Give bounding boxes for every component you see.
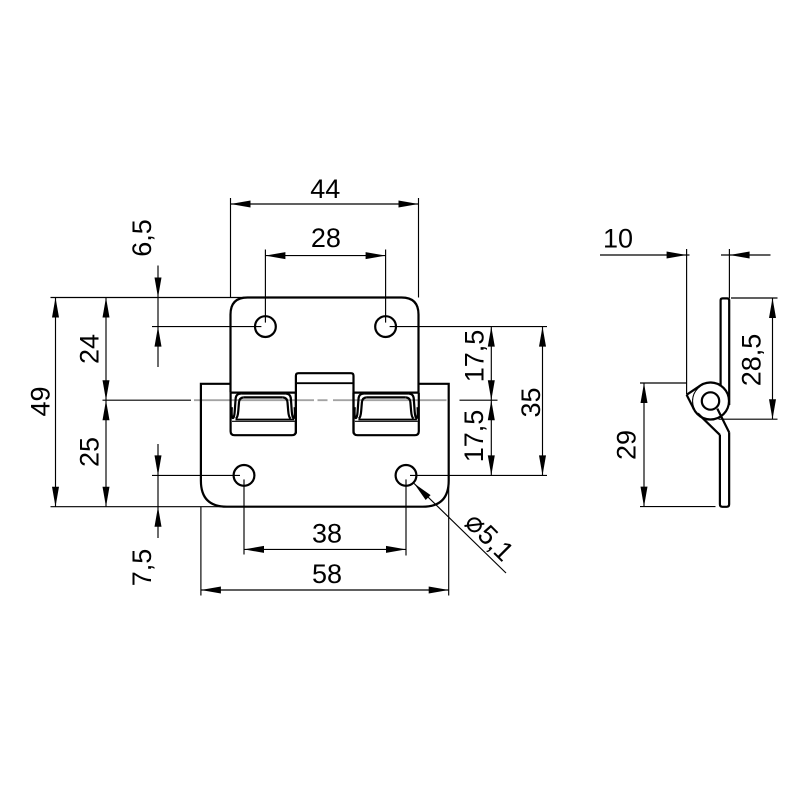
svg-text:28,5: 28,5: [737, 334, 767, 387]
dimension 6,5: [157, 266, 159, 368]
knuckle band line 2: [355, 420, 418, 422]
centerline (pivot axis, gray dash-dot): [194, 399, 447, 401]
hat outer left curl: [355, 394, 365, 419]
extension line 44 right: [418, 198, 420, 298]
dimension 17,5 upper: [490, 327, 492, 401]
side view lower leaf diagonal left: [698, 413, 720, 435]
side view beak (leaf end wedge): [687, 386, 701, 410]
dimension 49: [55, 298, 57, 507]
knuckle block: [231, 393, 296, 436]
dimension 28: [265, 255, 385, 257]
side view knuckle outer circle: [692, 383, 729, 420]
hole upper right: [375, 316, 396, 337]
lower leaf plate (front view): [201, 384, 449, 507]
svg-text:25: 25: [75, 437, 105, 467]
side view beak upper edge: [687, 386, 701, 395]
right knuckle: [354, 393, 419, 436]
extension line 28,5 bottom: [719, 418, 778, 420]
extension line lower hole row left: [152, 474, 240, 476]
knuckle band line 1: [236, 419, 295, 421]
center knuckle tab: [296, 373, 354, 433]
dimension 28,5 (side view): [772, 298, 774, 419]
extension line 29 top: [640, 382, 687, 384]
upper leaf bottom edge left segment: [231, 392, 296, 394]
hat inner left: [236, 397, 244, 418]
hat outer top: [364, 392, 408, 394]
knuckle band line 1: [358, 419, 417, 421]
extension line 44 left: [230, 198, 232, 298]
dimension 25: [105, 400, 107, 507]
side view upper leaf strip: [721, 298, 730, 405]
svg-text:58: 58: [312, 559, 342, 589]
hat inner right: [406, 397, 414, 418]
extension line 28,5 top: [731, 297, 778, 299]
extension line 10 right: [728, 249, 730, 298]
hat outer right curl: [408, 394, 418, 419]
svg-text:44: 44: [310, 174, 340, 204]
extension line 28 right: [385, 250, 387, 323]
extension line plate bottom: [51, 506, 261, 508]
hole upper left: [255, 316, 276, 337]
svg-text:17,5: 17,5: [459, 410, 489, 463]
hat outer right curl: [285, 394, 295, 419]
side view beak lower edge: [687, 395, 694, 410]
upper leaf bottom edge right segment: [354, 392, 419, 394]
dimension 58: [201, 589, 449, 591]
extension line 58 right: [448, 481, 450, 596]
extension line lower hole row right: [410, 474, 547, 476]
hole lower right: [396, 465, 417, 486]
tab crossline: [296, 382, 354, 384]
hat outer top: [241, 392, 285, 394]
hat inner right: [283, 397, 291, 418]
svg-text:24: 24: [75, 334, 105, 364]
svg-text:38: 38: [312, 518, 342, 548]
extension line upper hole row left: [152, 326, 261, 328]
dimension 35: [542, 327, 544, 476]
extension line 28 left: [264, 250, 266, 323]
extension line centerline level left: [103, 399, 192, 401]
extension line 29 bottom: [640, 506, 716, 508]
hat inner left: [359, 397, 367, 418]
extension line upper hole row right: [390, 326, 547, 328]
svg-text:35: 35: [516, 387, 546, 417]
dimension 24: [105, 298, 107, 401]
dimension 44: [231, 203, 419, 205]
svg-text:49: 49: [26, 386, 56, 416]
hat outer left curl: [232, 394, 242, 419]
knuckle block: [354, 393, 419, 436]
extension line centerline level right: [460, 399, 498, 401]
left knuckle: [231, 393, 296, 436]
extension line 38 right: [405, 479, 407, 555]
dimension 7,5: [157, 444, 159, 538]
dimension 29 (side view): [643, 383, 645, 507]
dimension 38: [244, 548, 406, 550]
leader diameter 5,1: [414, 483, 506, 573]
extension line 38 left: [243, 479, 245, 554]
svg-text:10: 10: [603, 223, 633, 253]
knuckle band line 2: [232, 420, 295, 422]
extension line top of plate y=297.5: [51, 297, 251, 299]
side view pin hole: [702, 392, 719, 409]
side view lower leaf diagonal right: [717, 409, 729, 433]
hat inner top: [367, 396, 406, 398]
extension line 10 left: [686, 249, 688, 395]
hat inner top: [244, 396, 283, 398]
svg-text:29: 29: [612, 430, 642, 460]
upper leaf plate (front view): [231, 298, 419, 393]
svg-text:7,5: 7,5: [127, 549, 157, 587]
svg-text:6,5: 6,5: [127, 219, 157, 257]
extension line 58 left: [200, 507, 202, 596]
hole lower left: [234, 465, 255, 486]
svg-text:17,5: 17,5: [460, 330, 490, 383]
dimension 10 (side view): [600, 254, 690, 256]
svg-text:28: 28: [311, 223, 341, 253]
side view lower leaf strip: [720, 432, 729, 507]
dimension 17,5 lower: [490, 400, 492, 475]
